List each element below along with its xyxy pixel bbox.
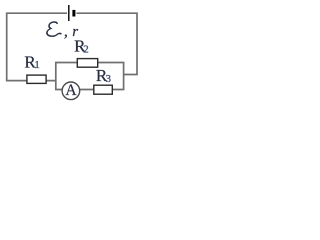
svg-text:1: 1	[34, 59, 40, 71]
svg-text:2: 2	[83, 44, 89, 56]
svg-text:,: ,	[64, 23, 68, 40]
svg-text:r: r	[72, 24, 78, 40]
svg-text:A: A	[65, 82, 77, 99]
svg-text:3: 3	[106, 73, 112, 85]
